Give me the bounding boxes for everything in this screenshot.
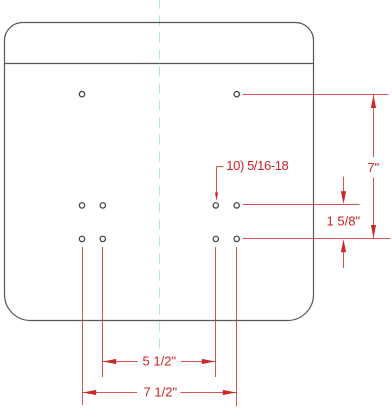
svg-text:1 5/8": 1 5/8": [327, 214, 361, 229]
svg-text:7 1/2": 7 1/2": [144, 384, 178, 399]
svg-text:10) 5/16-18: 10) 5/16-18: [226, 158, 288, 173]
svg-text:5 1/2": 5 1/2": [143, 354, 177, 369]
svg-text:7": 7": [367, 160, 379, 175]
